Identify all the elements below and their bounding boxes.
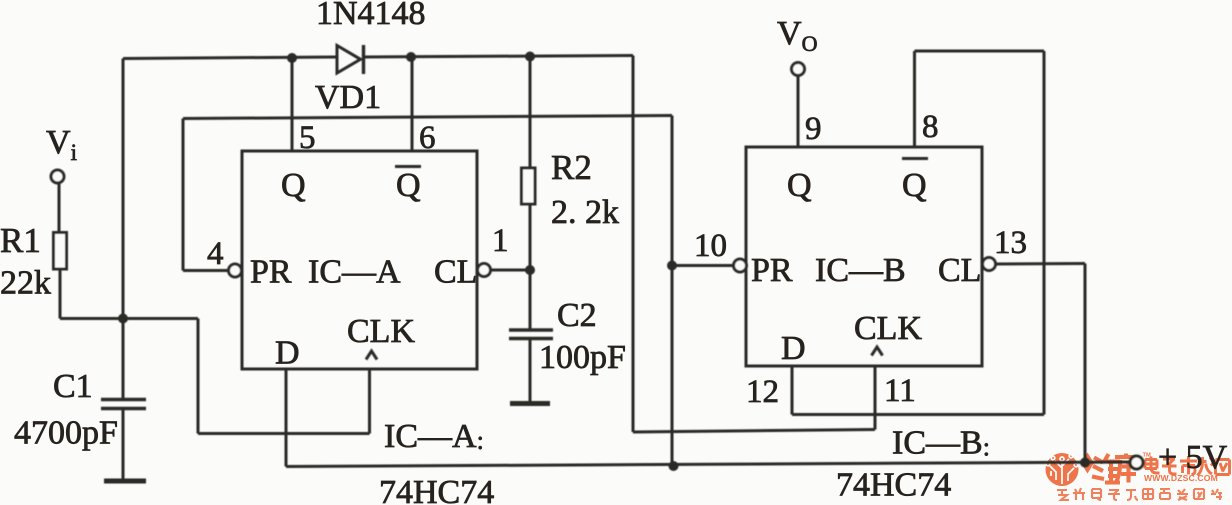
terminal Vo circle	[792, 63, 805, 76]
svg-text:4: 4	[207, 236, 224, 272]
IC U1 (IC-A) box	[242, 151, 477, 369]
wire: C2 bottom lead to ground	[529, 339, 532, 403]
svg-text:IC—B: IC—B	[815, 252, 906, 289]
Qbar overbar IC-B	[902, 157, 928, 160]
svg-text:74HC74: 74HC74	[836, 467, 951, 504]
svg-text:CLK: CLK	[854, 310, 922, 347]
wire: second rail (PR net)	[183, 116, 672, 119]
svg-text:22k: 22k	[0, 265, 51, 302]
wire: second rail left vertical to PR-A	[182, 119, 185, 271]
svg-text:CL: CL	[434, 254, 477, 291]
watermark logo circle icon	[1046, 453, 1079, 486]
wire: bottom rail to +5V	[286, 462, 1130, 467]
wire: into PR-A bubble	[183, 269, 229, 272]
wire: CL-A to R2 node	[491, 269, 531, 272]
wire: right vertical of PR net down to bottom rail	[671, 116, 674, 466]
svg-text:11: 11	[884, 373, 916, 409]
svg-text:8: 8	[922, 109, 939, 145]
node: top rail / pin6 junction	[406, 52, 416, 62]
resistor R1 body	[54, 233, 67, 270]
wire: R2 bottom lead to C2	[529, 204, 532, 330]
wire: pin 8 vertical up	[913, 51, 916, 147]
ground bar below C1	[104, 479, 146, 484]
terminal +5V circle	[1130, 456, 1143, 469]
svg-text:9: 9	[805, 111, 822, 147]
pin bubble CL of IC-B	[983, 258, 996, 271]
main schematic ink	[51, 45, 1143, 481]
svg-text:R2: R2	[551, 148, 592, 187]
node: top rail / pin5 junction	[287, 53, 297, 63]
wire: Vi stem	[58, 183, 61, 233]
wire: Qbar-B loop bottom horizontal to D-B	[792, 413, 1044, 416]
svg-text:VO: VO	[777, 15, 817, 56]
IC U2 (IC-B) box	[746, 147, 982, 366]
wire: CLK-A feed horizontal	[198, 432, 370, 435]
ground bar below C2	[510, 401, 550, 406]
capacitor C2 plates	[509, 330, 553, 339]
svg-text:Q: Q	[902, 167, 927, 204]
svg-text:R1: R1	[0, 221, 41, 260]
svg-text:C2: C2	[557, 297, 597, 334]
svg-text:D: D	[781, 330, 806, 367]
svg-text:PR: PR	[250, 254, 292, 291]
diode VD1	[337, 45, 364, 74]
wire: CLK-B feed horizontal	[633, 430, 875, 433]
wire: C1 bottom lead	[122, 409, 125, 480]
wire: down leg to CLK-A feed	[197, 319, 200, 434]
watermark char 维	[1092, 454, 1120, 483]
terminal Vi circle	[51, 170, 64, 183]
svg-text:Q: Q	[396, 167, 421, 204]
svg-text:C1: C1	[53, 368, 93, 405]
wire: R2 top lead from rail	[529, 57, 532, 169]
node: PR net branch junction	[667, 261, 677, 271]
watermark chars 电子市场网	[1145, 456, 1230, 476]
Qbar overbar IC-A	[395, 165, 421, 168]
svg-text:PR: PR	[751, 252, 793, 289]
node: R1/C1 junction	[118, 314, 128, 324]
wire: Vo stem to pin 9	[797, 76, 800, 147]
svg-text:IC—B:: IC—B:	[892, 425, 990, 462]
node: CL-A / R2 / C2 junction	[525, 265, 535, 275]
svg-text:100pF: 100pF	[539, 339, 626, 376]
svg-text:CLK: CLK	[347, 313, 415, 350]
wire: top rail left segment	[123, 57, 336, 59]
wire: left vertical from top rail to C1	[122, 59, 125, 400]
svg-text:10: 10	[694, 228, 727, 264]
resistor R2 body	[522, 168, 536, 204]
svg-text:4700pF: 4700pF	[14, 415, 118, 452]
wire: branch to PR-B bubble	[672, 264, 734, 267]
svg-text:1: 1	[492, 223, 509, 259]
watermark bottom slogan chars	[1057, 488, 1222, 500]
wire: vertical drop from top rail to CLK-B feed	[632, 56, 635, 433]
wire: CL-B to bottom rail horizontal	[996, 262, 1086, 266]
svg-text:VD1: VD1	[315, 79, 381, 116]
pin bubble PR of IC-A	[229, 264, 242, 277]
capacitor C1 plates	[101, 400, 146, 409]
node: PR net / bottom rail junction	[669, 461, 679, 471]
CLK edge caret IC-B	[872, 347, 883, 356]
wire: top rail right segment	[364, 56, 633, 58]
svg-text:2. 2k: 2. 2k	[551, 194, 619, 231]
wire: pin 6 vertical (Qbar of IC-A)	[411, 57, 414, 151]
node: CL-B / bottom rail junction	[1080, 458, 1090, 468]
svg-text:Vi: Vi	[46, 124, 77, 165]
wire: CL-B vertical down to rail	[1084, 264, 1087, 463]
svg-text:Q: Q	[281, 167, 306, 204]
pin bubble CL of IC-A	[478, 264, 491, 277]
svg-text:CL: CL	[938, 252, 981, 289]
watermark char 库	[1115, 454, 1136, 484]
watermark diamond mark	[1081, 453, 1094, 474]
wire: D-A pin vertical to bottom rail	[285, 369, 288, 467]
wire: CLK-B pin vertical	[874, 366, 877, 430]
node: top rail / R2 junction	[525, 52, 535, 62]
svg-text:IC—A:: IC—A:	[384, 418, 484, 455]
svg-text:6: 6	[419, 120, 436, 156]
svg-text:12: 12	[746, 374, 779, 410]
svg-text:5: 5	[299, 120, 316, 156]
wire: Qbar-B loop right vertical	[1043, 51, 1046, 415]
svg-text:74HC74: 74HC74	[379, 474, 494, 505]
svg-text:IC—A: IC—A	[308, 254, 401, 291]
svg-text:+ 5V: + 5V	[1158, 439, 1228, 476]
wire: R1 bottom lead	[59, 269, 62, 319]
svg-text:D: D	[275, 335, 300, 372]
wire: Qbar-B loop top	[915, 50, 1045, 53]
svg-text:Q: Q	[787, 167, 812, 204]
wire: CLK-A pin vertical	[368, 369, 371, 434]
svg-text:1N4148: 1N4148	[316, 0, 426, 32]
wire: R1/C1 junction horizontal	[60, 317, 198, 320]
svg-text:13: 13	[994, 225, 1027, 261]
wire: pin 5 vertical (Q of IC-A)	[291, 58, 294, 151]
pin bubble PR of IC-B	[734, 259, 747, 272]
CLK edge caret IC-A	[366, 351, 377, 360]
wire: D-B pin vertical	[791, 366, 794, 415]
